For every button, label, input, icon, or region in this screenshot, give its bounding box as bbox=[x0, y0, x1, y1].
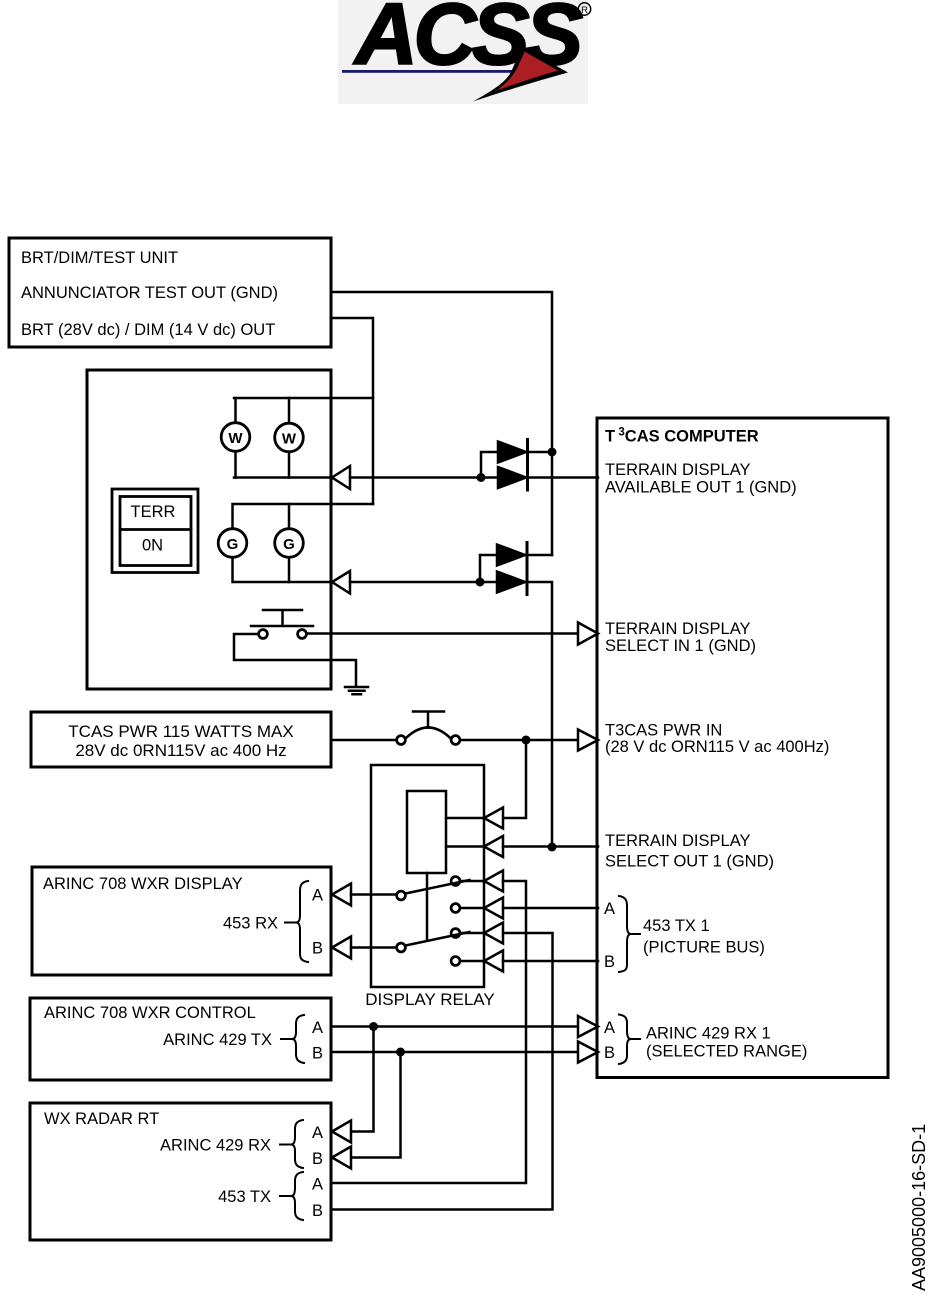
wire relay contact 1a to wx radar 453 tx A bbox=[331, 881, 526, 1183]
svg-text:453 TX 1: 453 TX 1 bbox=[643, 917, 710, 935]
svg-text:ANNUNCIATOR TEST OUT (GND): ANNUNCIATOR TEST OUT (GND) bbox=[21, 284, 278, 302]
svg-text:AA9005000-16-SD-1: AA9005000-16-SD-1 bbox=[909, 1124, 929, 1291]
wire tx B to wx radar bbox=[351, 1052, 401, 1158]
wire G lamps top rail bbox=[234, 503, 373, 506]
relay contact 2a bbox=[451, 929, 460, 938]
svg-text:TERR: TERR bbox=[131, 503, 176, 521]
svg-text:WX RADAR RT: WX RADAR RT bbox=[44, 1110, 159, 1128]
TERR ON divider bbox=[120, 528, 191, 531]
relay armature 1 bbox=[406, 880, 470, 894]
buffer into lamp box (W row) bbox=[332, 466, 350, 489]
wire tcas pwr to switch bbox=[331, 739, 396, 742]
svg-text:A: A bbox=[312, 1176, 323, 1194]
box T3CAS COMPUTER bbox=[597, 418, 888, 1078]
svg-text:B: B bbox=[312, 1202, 323, 1220]
svg-text:TERRAIN DISPLAY: TERRAIN DISPLAY bbox=[605, 832, 750, 850]
lamp W2 bbox=[275, 423, 304, 452]
diode CR2 bbox=[498, 467, 526, 488]
relay armature 2 bbox=[406, 932, 470, 946]
buffer relay 453 rx A bbox=[484, 871, 503, 892]
wire G lamps bottom rail bbox=[234, 581, 331, 584]
svg-text:A: A bbox=[312, 887, 323, 905]
box BRT/DIM/TEST UNIT bbox=[9, 238, 331, 347]
svg-text:453 RX: 453 RX bbox=[223, 915, 278, 933]
wire relay contact 2a to wx radar 453 tx B bbox=[331, 933, 553, 1210]
wire terrain display available out bbox=[350, 476, 598, 479]
node junction tx A bbox=[369, 1022, 378, 1031]
svg-text:AVAILABLE OUT 1 (GND): AVAILABLE OUT 1 (GND) bbox=[605, 479, 797, 497]
registered mark bbox=[578, 3, 590, 15]
wire annunciator test out bbox=[331, 292, 552, 555]
brace 453 rx bbox=[296, 881, 308, 962]
wire terrain display select in bbox=[307, 632, 578, 635]
svg-text:ARINC 708 WXR DISPLAY: ARINC 708 WXR DISPLAY bbox=[43, 875, 243, 893]
node junction diode pair 1 bbox=[477, 473, 486, 482]
svg-text:B: B bbox=[312, 940, 323, 958]
node junction tx B bbox=[396, 1048, 405, 1057]
wire switch to t3cas pwr in bbox=[461, 739, 578, 742]
svg-text:ARINC 429 RX: ARINC 429 RX bbox=[160, 1137, 271, 1155]
lamp G2 bbox=[275, 529, 304, 558]
wire switch to ground bbox=[234, 634, 356, 686]
wire 453 tx 1 B bbox=[503, 960, 598, 963]
svg-text:T3CAS PWR IN: T3CAS PWR IN bbox=[605, 722, 722, 740]
wire display A to relay pole 1 bbox=[351, 893, 396, 896]
buffer arinc 429 rx1 B bbox=[578, 1042, 598, 1063]
diode CR1 bbox=[498, 442, 526, 463]
svg-text:A: A bbox=[604, 900, 615, 918]
relay contact 1a bbox=[451, 877, 460, 886]
wire display B to relay pole 2 bbox=[351, 946, 396, 949]
wire 453 tx 1 A bbox=[503, 907, 598, 910]
node junction select out bbox=[548, 843, 557, 852]
brace arinc 429 rx 1 bbox=[619, 1015, 631, 1065]
wire contact 1b lead bbox=[461, 907, 484, 910]
pushbutton switch S1 bbox=[251, 610, 313, 638]
power switch S2 bbox=[397, 712, 460, 745]
relay contact 2b bbox=[451, 957, 460, 966]
wire coil bottom lead bbox=[446, 845, 484, 848]
svg-text:A: A bbox=[604, 1019, 615, 1037]
wire pwr to relay coil bbox=[503, 740, 526, 818]
relay contact 1b bbox=[451, 904, 460, 913]
diode CR3 bbox=[497, 545, 525, 566]
wire diode CR3 branch bbox=[480, 555, 552, 582]
node junction at annunciator line bbox=[548, 448, 557, 457]
diode CR4 bbox=[497, 572, 525, 593]
node junction pwr bbox=[522, 736, 531, 745]
wire coil actuator stem bbox=[426, 873, 429, 940]
node junction diode pair 2 bbox=[476, 578, 485, 587]
brace arinc 429 tx bbox=[292, 1015, 304, 1063]
buffer into wxr display A bbox=[332, 884, 351, 906]
brace arinc 429 rx bbox=[291, 1120, 303, 1168]
svg-text:0N: 0N bbox=[142, 537, 163, 555]
box display relay bbox=[371, 765, 484, 987]
svg-text:A: A bbox=[312, 1019, 323, 1037]
wire select out to t3cas bbox=[503, 845, 598, 848]
ground bbox=[345, 687, 368, 694]
svg-text:A: A bbox=[312, 1124, 323, 1142]
wire G lamp stubs bbox=[233, 504, 290, 582]
svg-text:B: B bbox=[312, 1150, 323, 1168]
svg-text:TERRAIN DISPLAY: TERRAIN DISPLAY bbox=[605, 620, 750, 638]
logo swoosh red bbox=[497, 52, 558, 91]
brace 453 tx bbox=[291, 1172, 303, 1220]
svg-text:W: W bbox=[282, 431, 297, 448]
svg-text:(PICTURE BUS): (PICTURE BUS) bbox=[643, 939, 765, 957]
TERR ON switch outer box bbox=[112, 489, 198, 573]
wire brt/dim out bbox=[331, 318, 373, 504]
wire contact 2a lead bbox=[461, 932, 484, 935]
svg-text:T 3CAS COMPUTER: T 3CAS COMPUTER bbox=[605, 427, 759, 446]
relay contact pole 1 bbox=[397, 891, 406, 900]
box annunciator lamp unit bbox=[87, 370, 331, 689]
wire arinc 429 tx B bbox=[331, 1051, 578, 1054]
buffer relay coil top bbox=[484, 808, 503, 829]
wire W lamps top rail bbox=[234, 397, 373, 400]
buffer into wx radar A bbox=[332, 1121, 351, 1143]
svg-text:R: R bbox=[581, 5, 588, 16]
wire diode CR1 branch bbox=[481, 452, 552, 478]
wire tx A to wx radar bbox=[351, 1027, 374, 1132]
box TCAS PWR bbox=[31, 712, 331, 767]
svg-text:DISPLAY RELAY: DISPLAY RELAY bbox=[365, 990, 494, 1009]
svg-text:G: G bbox=[283, 536, 295, 553]
buffer into wxr display B bbox=[332, 937, 351, 959]
buffer relay 453 tx1 A bbox=[484, 898, 503, 919]
svg-text:G: G bbox=[227, 536, 239, 553]
svg-text:453 TX: 453 TX bbox=[218, 1188, 271, 1206]
brace 453 tx 1 bbox=[619, 896, 631, 972]
svg-text:SELECT IN 1 (GND): SELECT IN 1 (GND) bbox=[605, 637, 756, 655]
TERR ON switch inner box bbox=[120, 497, 191, 566]
svg-text:BRT (28V dc) / DIM (14 V dc) O: BRT (28V dc) / DIM (14 V dc) OUT bbox=[21, 321, 275, 339]
svg-text:ARINC 429 RX 1: ARINC 429 RX 1 bbox=[646, 1025, 771, 1043]
wire coil top lead bbox=[446, 817, 484, 820]
svg-text:ARINC 708 WXR CONTROL: ARINC 708 WXR CONTROL bbox=[44, 1004, 256, 1022]
buffer terrain display select in bbox=[578, 623, 598, 645]
box ARINC 708 WXR CONTROL bbox=[30, 998, 331, 1080]
lamp W1 bbox=[221, 423, 250, 452]
relay coil K1 bbox=[407, 791, 446, 873]
wire select out from lamp G row bbox=[350, 582, 552, 847]
svg-text:TERRAIN DISPLAY: TERRAIN DISPLAY bbox=[605, 461, 750, 479]
wire contact 1a lead bbox=[461, 880, 484, 883]
buffer relay 453 rx B bbox=[484, 923, 503, 944]
svg-text:(28 V dc ORN115 V ac 400Hz): (28 V dc ORN115 V ac 400Hz) bbox=[605, 738, 829, 756]
wire W lamp 1 stubs bbox=[234, 398, 237, 478]
ACSS logo bbox=[338, 0, 591, 104]
buffer into lamp box (G row) bbox=[332, 571, 350, 594]
lamp G1 bbox=[218, 529, 247, 558]
svg-text:W: W bbox=[228, 430, 243, 447]
logo underline bbox=[342, 70, 524, 73]
buffer relay coil bottom bbox=[484, 836, 503, 857]
svg-text:B: B bbox=[604, 953, 615, 971]
logo swoosh black bbox=[473, 46, 568, 102]
buffer t3cas pwr in bbox=[578, 730, 598, 751]
wire contact 2b lead bbox=[461, 960, 484, 963]
wire arinc 429 tx A bbox=[331, 1025, 578, 1028]
svg-text:B: B bbox=[312, 1045, 323, 1063]
buffer arinc 429 rx1 A bbox=[578, 1016, 598, 1037]
svg-text:BRT/DIM/TEST UNIT: BRT/DIM/TEST UNIT bbox=[21, 249, 178, 267]
relay contact pole 2 bbox=[397, 943, 406, 952]
buffer into wx radar B bbox=[332, 1147, 351, 1169]
svg-text:(SELECTED RANGE): (SELECTED RANGE) bbox=[646, 1043, 807, 1061]
box ARINC 708 WXR DISPLAY bbox=[32, 867, 331, 975]
wire W lamp 2 stubs bbox=[288, 398, 291, 478]
wire W lamps bottom rail bbox=[234, 476, 331, 479]
svg-text:SELECT OUT 1 (GND): SELECT OUT 1 (GND) bbox=[605, 853, 774, 871]
svg-text:ARINC 429 TX: ARINC 429 TX bbox=[163, 1031, 272, 1049]
svg-text:B: B bbox=[604, 1044, 615, 1062]
svg-text:28V dc 0RN115V ac 400 Hz: 28V dc 0RN115V ac 400 Hz bbox=[75, 741, 286, 760]
svg-text:TCAS PWR 115 WATTS MAX: TCAS PWR 115 WATTS MAX bbox=[68, 722, 293, 741]
box WX RADAR RT bbox=[30, 1103, 331, 1240]
buffer relay 453 tx1 B bbox=[484, 951, 503, 972]
